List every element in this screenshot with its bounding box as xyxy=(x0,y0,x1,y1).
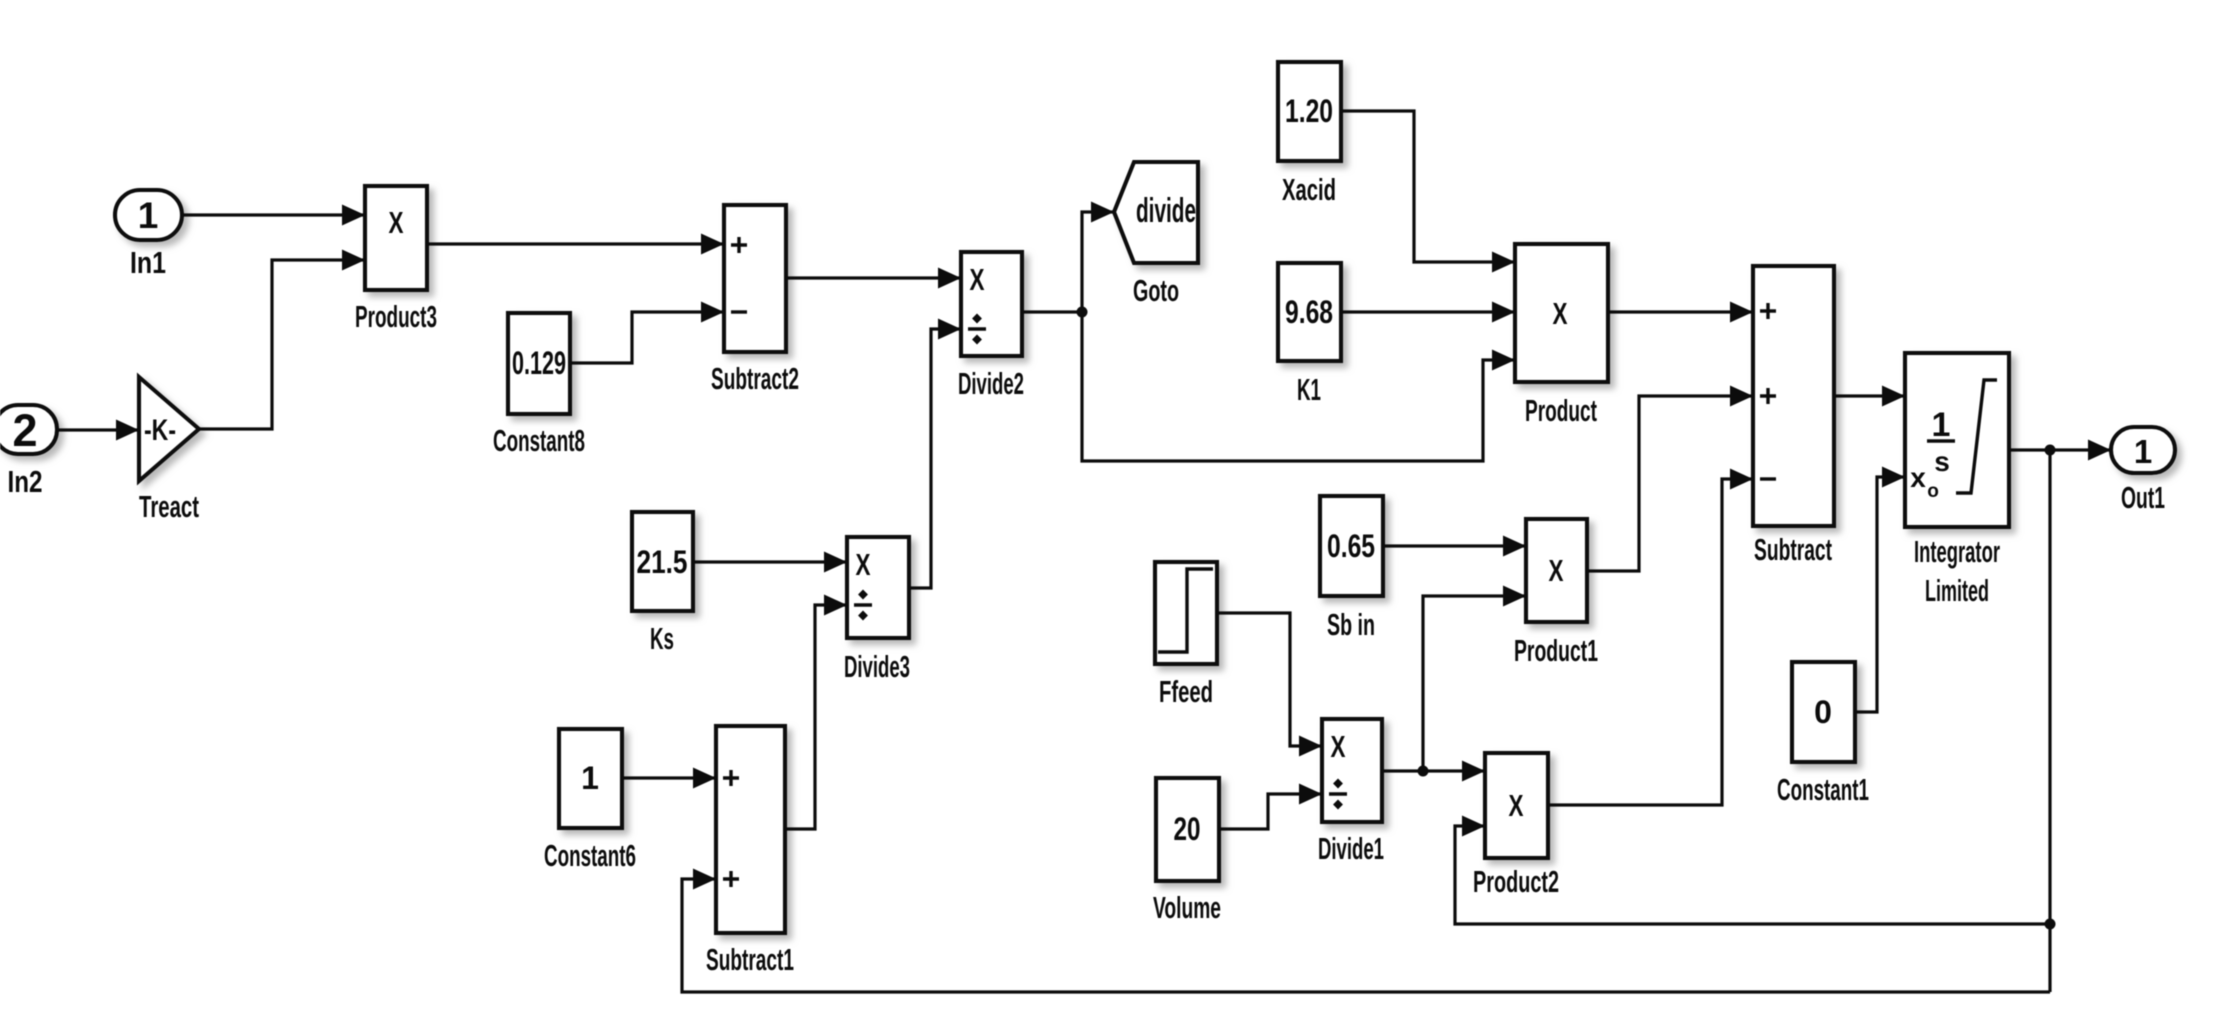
wire Divide1 to Product2 port1 xyxy=(1382,769,1485,772)
wire junction to Product port3 xyxy=(1082,312,1515,461)
svg-text:Out1: Out1 xyxy=(2121,480,2165,515)
svg-text:Ks: Ks xyxy=(650,621,674,656)
outport Out1 xyxy=(2111,427,2175,473)
svg-text:1: 1 xyxy=(1932,406,1951,444)
svg-text:0.129: 0.129 xyxy=(512,345,566,381)
svg-text:Constant8: Constant8 xyxy=(493,423,585,458)
svg-text:0: 0 xyxy=(1814,694,1832,730)
svg-text:Subtract1: Subtract1 xyxy=(706,942,794,977)
wire feedback to Product2 port2 xyxy=(1455,826,2050,924)
svg-text:X: X xyxy=(1549,553,1564,588)
Divide3 divide sign xyxy=(854,603,872,607)
svg-text:Product1: Product1 xyxy=(1514,633,1598,668)
svg-text:Goto: Goto xyxy=(1133,273,1179,308)
wire Volume to Divide1 port2 xyxy=(1219,794,1322,829)
wire Subtract to Integrator port1 xyxy=(1834,394,1905,397)
gain Treact xyxy=(139,377,199,481)
svg-text:divide: divide xyxy=(1136,192,1196,230)
Subtract plus sign 2 xyxy=(1760,388,1776,404)
svg-text:Limited: Limited xyxy=(1925,573,1989,608)
Divide2 divide sign xyxy=(968,327,986,331)
Integrator saturation glyph xyxy=(1956,380,1997,493)
constant Constant1 xyxy=(1792,662,1855,762)
svg-text:Treact: Treact xyxy=(139,489,199,524)
step source Ffeed xyxy=(1155,562,1217,664)
wire Constant8 to Subtract2 port2 xyxy=(570,312,724,363)
divide Divide3 xyxy=(847,537,909,638)
svg-text:21.5: 21.5 xyxy=(637,544,688,580)
wire Ks to Divide3 port1 xyxy=(693,560,847,563)
integrator Integrator Limited xyxy=(1905,353,2009,527)
svg-text:Divide2: Divide2 xyxy=(958,366,1024,401)
wire Divide3 to Divide2 port2 xyxy=(909,329,961,588)
junction Divide2 output xyxy=(1077,307,1088,318)
svg-text:K1: K1 xyxy=(1297,372,1321,407)
svg-text:9.68: 9.68 xyxy=(1285,294,1333,330)
divide Divide2 xyxy=(961,252,1022,356)
svg-text:Ffeed: Ffeed xyxy=(1159,674,1213,709)
svg-text:In1: In1 xyxy=(130,245,166,280)
wire Constant6 to Subtract1 port1 xyxy=(622,776,716,779)
inport In2 xyxy=(0,405,57,454)
constant K1 xyxy=(1278,263,1341,361)
svg-text:Divide3: Divide3 xyxy=(844,649,910,684)
wire Xacid to Product port1 xyxy=(1341,111,1515,262)
svg-text:X: X xyxy=(970,262,985,297)
Subtract1 plus sign 1 xyxy=(723,770,739,786)
Integrator fraction bar xyxy=(1927,439,1955,442)
subtract Subtract1 xyxy=(716,726,785,933)
Subtract1 plus sign 2 xyxy=(723,871,739,887)
wire Product2 to Subtract port3 xyxy=(1548,479,1753,805)
constant Constant6 xyxy=(559,729,622,828)
constant Xacid xyxy=(1278,62,1341,161)
product Product xyxy=(1515,244,1608,382)
svg-text:0.65: 0.65 xyxy=(1327,528,1375,564)
wire junction to Product1 port2 xyxy=(1423,596,1526,771)
product Product3 xyxy=(365,186,427,290)
inport In1 xyxy=(115,190,182,240)
wire Subtract1 to Divide3 port2 xyxy=(785,605,847,829)
constant Ks xyxy=(632,512,693,611)
wire Product1 to Subtract port2 xyxy=(1587,396,1753,571)
wire Product3 to Subtract2 port1 xyxy=(427,242,724,245)
wire Product to Subtract port1 xyxy=(1608,310,1753,313)
svg-text:20: 20 xyxy=(1174,811,1201,847)
svg-text:Divide1: Divide1 xyxy=(1318,831,1384,866)
product Product2 xyxy=(1485,753,1548,858)
svg-text:Sb in: Sb in xyxy=(1327,607,1375,642)
constant Constant8 xyxy=(508,313,570,414)
svg-text:X: X xyxy=(1509,788,1524,823)
wire Treact to Product3 port2 xyxy=(199,260,365,429)
svg-text:2: 2 xyxy=(12,405,37,456)
svg-text:1: 1 xyxy=(2134,433,2152,470)
wire junction to Goto xyxy=(1082,212,1114,312)
wire feedback to Subtract1 port2 xyxy=(682,879,2050,992)
wire Constant1 to Integrator x0 port xyxy=(1855,477,1905,712)
wire Ffeed to Divide1 port1 xyxy=(1217,613,1322,746)
wire In2 to Treact xyxy=(57,428,139,431)
constant Sb in xyxy=(1320,496,1383,596)
svg-text:1.20: 1.20 xyxy=(1285,93,1333,129)
svg-text:X: X xyxy=(1331,729,1346,764)
svg-text:Integrator: Integrator xyxy=(1914,534,2000,569)
subtract Subtract xyxy=(1753,266,1834,526)
svg-text:s: s xyxy=(1934,446,1950,477)
Subtract2 plus sign xyxy=(731,237,747,253)
svg-text:x: x xyxy=(1910,462,1926,493)
Ffeed step icon xyxy=(1158,569,1213,652)
svg-text:o: o xyxy=(1927,481,1939,502)
junction Integrator output xyxy=(2045,445,2056,456)
wire Integrator to Out1 xyxy=(2009,448,2111,451)
wire Divide2 output xyxy=(1022,310,1082,313)
wire feedback trunk down xyxy=(2048,450,2051,992)
svg-text:Product2: Product2 xyxy=(1473,864,1559,899)
svg-text:Product3: Product3 xyxy=(355,299,437,334)
svg-text:1: 1 xyxy=(138,195,159,236)
svg-text:In2: In2 xyxy=(8,464,43,499)
Subtract2 minus sign xyxy=(731,310,747,313)
goto tag divide xyxy=(1114,162,1198,263)
svg-text:Xacid: Xacid xyxy=(1282,172,1336,207)
svg-text:Constant6: Constant6 xyxy=(544,838,636,873)
svg-text:Subtract2: Subtract2 xyxy=(711,361,799,396)
wire In1 to Product3 port1 xyxy=(182,213,365,216)
svg-text:Constant1: Constant1 xyxy=(1777,772,1869,807)
svg-text:X: X xyxy=(1553,296,1568,331)
product Product1 xyxy=(1526,519,1587,622)
divide Divide1 xyxy=(1322,719,1382,822)
constant Volume xyxy=(1156,778,1219,881)
wire K1 to Product port2 xyxy=(1341,310,1515,313)
wire Sb in to Product1 port1 xyxy=(1383,544,1526,547)
Divide1 divide sign xyxy=(1329,792,1347,796)
Subtract minus sign xyxy=(1760,477,1776,480)
junction Divide1 output xyxy=(1418,766,1429,777)
svg-text:Subtract: Subtract xyxy=(1754,532,1832,567)
svg-text:X: X xyxy=(389,205,404,240)
subtract Subtract2 xyxy=(724,205,786,352)
svg-text:Volume: Volume xyxy=(1153,890,1221,925)
junction feedback at y924 xyxy=(2045,919,2056,930)
svg-text:-K-: -K- xyxy=(144,414,176,447)
svg-text:1: 1 xyxy=(581,760,599,796)
svg-text:Product: Product xyxy=(1525,393,1597,428)
Subtract plus sign 1 xyxy=(1760,303,1776,319)
wire Subtract2 to Divide2 port1 xyxy=(786,276,961,279)
svg-text:X: X xyxy=(856,547,871,582)
